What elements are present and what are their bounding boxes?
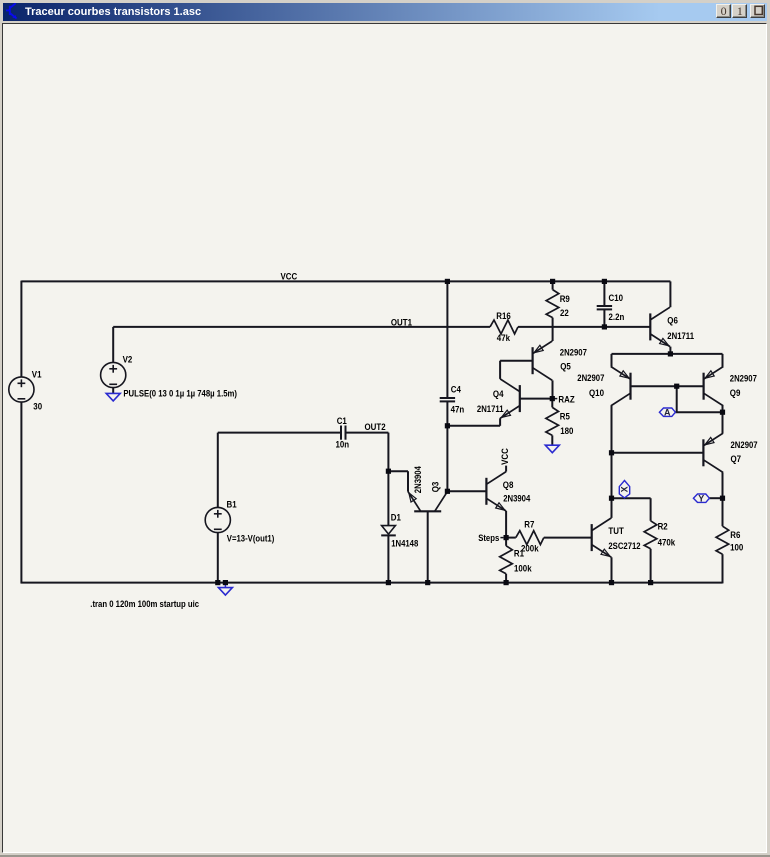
svg-text:R6: R6 (730, 530, 740, 540)
junction node Y (720, 496, 725, 501)
close button (750, 4, 765, 18)
svg-text:TUT: TUT (608, 526, 624, 536)
svg-text:Q8: Q8 (503, 480, 514, 490)
svg-text:Q5: Q5 (560, 362, 571, 372)
junction node X (609, 496, 614, 501)
junction Q3 base/rail (425, 580, 430, 585)
voltage source V2 (101, 362, 126, 387)
svg-text:47n: 47n (451, 404, 465, 414)
transistor Q9 PNP (702, 373, 704, 400)
transistor TUT 2SC2712 (591, 524, 593, 551)
wire R5 top (551, 399, 553, 408)
svg-text:VCC: VCC (281, 271, 298, 281)
svg-text:2.2n: 2.2n (609, 312, 625, 322)
wire Q4 emitter drop (499, 418, 501, 426)
svg-text:Y: Y (698, 493, 704, 503)
svg-text:2N2907: 2N2907 (577, 373, 604, 383)
junction Q10-Q9 bases (674, 384, 679, 389)
wire VCC top rail (21, 280, 670, 282)
junction TUT emitter/rail (609, 580, 614, 585)
svg-text:470k: 470k (658, 538, 676, 548)
diode D1 (382, 526, 396, 535)
junction VCC/C10 (602, 279, 607, 284)
net flag Y (693, 494, 709, 502)
resistor R2 (644, 521, 657, 549)
wire V2 gnd stub (112, 387, 114, 393)
svg-text:2N2907: 2N2907 (731, 440, 758, 450)
junction OUT1/C10 (602, 324, 607, 329)
junction node RAZ (550, 396, 555, 401)
wire Q9 collector / Q7 emitter (722, 406, 724, 433)
wire D1 top (387, 471, 389, 525)
junction VCC/R9 (550, 279, 555, 284)
junction D1/rail (386, 580, 391, 585)
svg-text:Q6: Q6 (667, 316, 678, 326)
junction B1/rail (215, 580, 220, 585)
restore button (732, 4, 747, 18)
transistor Q6 NPN (649, 313, 651, 340)
minimize button (716, 4, 731, 18)
transistor Q10 PNP mirrored (629, 373, 631, 400)
junction R2/rail (648, 580, 653, 585)
svg-text:C10: C10 (609, 293, 624, 303)
wire Q7 collector down (722, 473, 724, 499)
wire Q4 collector up (499, 361, 501, 379)
junction node A/Q9 collector (720, 410, 725, 415)
svg-text:Q4: Q4 (493, 389, 504, 399)
svg-text:1N4148: 1N4148 (391, 538, 418, 548)
capacitor C4 (440, 397, 455, 399)
wire V1 bottom (20, 402, 22, 584)
wire OUT2 horizontal right (346, 432, 389, 434)
svg-text:A: A (664, 407, 671, 417)
resistor R6 (716, 526, 729, 554)
transistor Q4 NPN mirrored (519, 385, 521, 412)
wire mirror rail (612, 353, 723, 355)
junction Q6 emitter/mirror rail (668, 351, 673, 356)
wire B1 top (217, 433, 219, 508)
junction OUT2/Q3 emitter (386, 469, 391, 474)
svg-text:10n: 10n (336, 439, 350, 449)
ground at bottom rail (218, 588, 232, 596)
svg-text:R7: R7 (524, 519, 534, 529)
svg-text:V=13-V(out1): V=13-V(out1) (227, 534, 274, 544)
wire OUT2 drop (387, 433, 389, 472)
wire R6 top (722, 498, 724, 526)
wire V2 stem (112, 327, 114, 363)
wire OUT1 rail left (113, 326, 490, 328)
svg-text:X: X (620, 486, 630, 492)
wire C4 branch upper (446, 281, 448, 398)
resistor R1 (500, 546, 513, 574)
net label RAZ (553, 398, 557, 400)
wire Q4 base to RAZ (520, 398, 553, 400)
wire R9 top (552, 281, 554, 289)
svg-text:V1: V1 (32, 370, 42, 380)
svg-text:Steps: Steps (478, 533, 499, 543)
wire Q7 base (612, 452, 704, 454)
window icon (3, 3, 21, 21)
resistor R16 (490, 320, 518, 334)
svg-text:30: 30 (33, 401, 42, 411)
svg-text:2N1711: 2N1711 (477, 404, 504, 414)
ground under R5 (545, 445, 559, 453)
svg-text:OUT1: OUT1 (391, 318, 412, 328)
wire Q8 base (447, 490, 486, 492)
svg-text:22: 22 (560, 308, 569, 318)
resistor R5 (546, 407, 559, 435)
wire Y flag link (709, 497, 722, 499)
svg-text:Q7: Q7 (731, 454, 742, 464)
svg-text:R1: R1 (514, 548, 524, 558)
wire bottom ground rail (21, 582, 723, 584)
capacitor C10 (597, 305, 612, 307)
wire V1 top (20, 281, 22, 378)
voltage source V1 (9, 377, 34, 402)
wire node A horizontal (675, 411, 722, 413)
wire gnd stub B1 (224, 583, 226, 588)
wire R7 right to TUT base (544, 537, 592, 539)
wire TUT emitter (611, 557, 613, 582)
wire Q3 emitter link (388, 470, 408, 472)
wire Q10 collector down (611, 406, 613, 518)
svg-text:Q10: Q10 (589, 388, 604, 398)
wire Q9 emitter stub (722, 354, 724, 367)
wire OUT2 horizontal left (218, 432, 341, 434)
svg-text:D1: D1 (391, 512, 401, 522)
svg-text:R5: R5 (560, 412, 570, 422)
junction node Steps (504, 535, 509, 540)
junction VCC/C4 (445, 279, 450, 284)
svg-text:Q3: Q3 (431, 482, 441, 493)
net flag A (659, 408, 675, 416)
svg-text:R16: R16 (496, 311, 511, 321)
wire B1 bottom (217, 532, 219, 582)
transistor Q3 NPN rotated (414, 510, 441, 512)
net flag X (619, 481, 629, 498)
svg-text:2N3904: 2N3904 (413, 466, 423, 493)
svg-text:180: 180 (560, 426, 573, 436)
behavioral source B1 (205, 507, 230, 532)
svg-text:R2: R2 (658, 522, 668, 532)
svg-text:100k: 100k (514, 564, 532, 574)
wire Q8 emitter (505, 511, 507, 538)
resistor R7 (516, 531, 544, 545)
svg-text:VCC: VCC (500, 448, 510, 465)
svg-text:B1: B1 (227, 499, 237, 509)
wire OUT1 rail right (518, 326, 650, 328)
svg-text:2SC2712: 2SC2712 (608, 541, 640, 551)
wire Q5 base (500, 360, 532, 362)
junction Q3 collector/Q8 base (445, 489, 450, 494)
wire R2 top (650, 498, 652, 521)
transistor Q8 NPN (485, 478, 487, 505)
wire Q6 collector (669, 281, 671, 307)
resistor R9 (546, 290, 559, 318)
capacitor C1 (340, 426, 342, 440)
wire D1 bottom (387, 535, 389, 582)
wire Q3 emitter drop (407, 471, 409, 491)
wire node X horizontal (612, 497, 651, 499)
wire Q4 emitter link (447, 425, 500, 427)
svg-text:Q9: Q9 (730, 388, 741, 398)
svg-text:R9: R9 (560, 294, 570, 304)
junction C4/Q4 emitter (445, 423, 450, 428)
wire bases down to node A (676, 386, 678, 412)
ground under V2 (106, 393, 120, 401)
svg-text:V2: V2 (123, 355, 133, 365)
wire C10 top (603, 281, 605, 306)
wire C10 bottom (603, 310, 605, 327)
transistor Q5 PNP (531, 347, 533, 374)
junction R1/rail (504, 580, 509, 585)
wire C4 branch lower (446, 402, 448, 492)
svg-text:RAZ: RAZ (558, 395, 575, 405)
svg-text:2N3904: 2N3904 (503, 494, 530, 504)
wire R9 bottom / Q5 emitter drop (552, 318, 554, 341)
wire Q5 collector to RAZ (552, 380, 554, 398)
wire R5 bottom (551, 435, 553, 445)
wire Q10-Q9 base link (631, 385, 704, 387)
svg-text:2N2907: 2N2907 (730, 374, 757, 384)
svg-text:2N2907: 2N2907 (560, 348, 587, 358)
wire R6 bottom (722, 554, 724, 583)
transistor Q7 PNP (702, 439, 704, 466)
svg-text:100: 100 (730, 543, 743, 553)
junction gnd/rail (223, 580, 228, 585)
svg-text:OUT2: OUT2 (365, 422, 386, 432)
svg-text:2N1711: 2N1711 (667, 331, 694, 341)
wire Q8 collector stub (505, 466, 507, 472)
window title bar (3, 3, 767, 21)
wire Q6 emitter (669, 347, 671, 354)
wire R1 bottom (505, 574, 507, 583)
svg-text:C1: C1 (337, 416, 347, 426)
wire Q3 base down (427, 511, 429, 582)
wire R7 left (506, 537, 516, 539)
wire R2 bottom (650, 549, 652, 583)
svg-text:.tran 0 120m 100m startup uic: .tran 0 120m 100m startup uic (90, 599, 199, 609)
wire Q10 emitter stub (611, 354, 613, 367)
svg-text:PULSE(0 13 0 1µ 1µ 748µ 1.5m): PULSE(0 13 0 1µ 1µ 748µ 1.5m) (123, 388, 237, 398)
svg-text:C4: C4 (451, 385, 461, 395)
wire R1 top (505, 538, 507, 546)
svg-text:47k: 47k (497, 333, 511, 343)
junction Q7 base tap (609, 450, 614, 455)
